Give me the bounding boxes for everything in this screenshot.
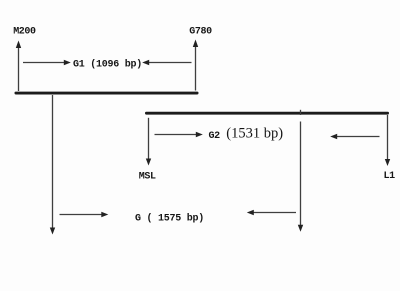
svg-text:G1 (1096 bp): G1 (1096 bp) [73, 59, 142, 71]
svg-text:G ( 1575 bp): G ( 1575 bp) [135, 212, 204, 224]
svg-text:L1: L1 [384, 171, 396, 182]
svg-text:MSL: MSL [139, 172, 156, 183]
svg-text:(1531 bp): (1531 bp) [226, 126, 283, 142]
svg-text:M200: M200 [13, 26, 36, 37]
svg-text:G2: G2 [209, 131, 221, 142]
svg-text:G780: G780 [189, 26, 212, 37]
